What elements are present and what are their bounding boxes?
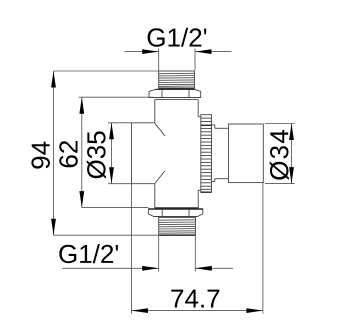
dimension line G1/2 bottom xyxy=(62,235,233,271)
dimension D34 lines xyxy=(265,124,295,184)
washer right of knurl xyxy=(212,125,215,181)
knurled adjuster wheel xyxy=(201,115,212,193)
arrows D34 xyxy=(289,124,294,141)
left inlet pipe xyxy=(132,123,155,184)
arrows G1/2 bottom xyxy=(142,266,159,271)
knurl hub xyxy=(198,117,201,191)
arrows G1/2 top xyxy=(142,49,159,54)
neck cylinder xyxy=(215,128,229,178)
top hex nut xyxy=(149,89,201,97)
dimension 74.7 lines xyxy=(132,183,263,314)
body transition chamfer bottom xyxy=(155,171,165,184)
arrows 74.7 xyxy=(132,308,149,313)
dimension label 94 xyxy=(31,142,50,169)
arrows D35 xyxy=(109,123,114,140)
dimension line G1/2 top xyxy=(125,49,232,71)
dimension label D35 xyxy=(87,131,106,178)
dimension label 74.7 xyxy=(171,290,219,308)
end cap cylinder xyxy=(229,124,264,183)
arrows 62 xyxy=(79,97,84,114)
body transition chamfer top xyxy=(155,123,165,136)
arrows 94 xyxy=(51,71,56,88)
bottom male thread G1/2 xyxy=(159,217,196,235)
dimension label D34 xyxy=(270,130,289,180)
dimension 62 lines xyxy=(79,97,153,207)
valve body xyxy=(155,100,198,208)
top male thread G1/2 xyxy=(159,71,195,88)
dimension D35 lines xyxy=(108,123,132,184)
bottom hex nut xyxy=(148,209,202,217)
dimension label G1/2 top xyxy=(148,28,207,47)
dimension 94 lines xyxy=(54,71,160,235)
dimension label 62 xyxy=(59,141,78,167)
dimension label G1/2 bottom xyxy=(59,244,118,263)
